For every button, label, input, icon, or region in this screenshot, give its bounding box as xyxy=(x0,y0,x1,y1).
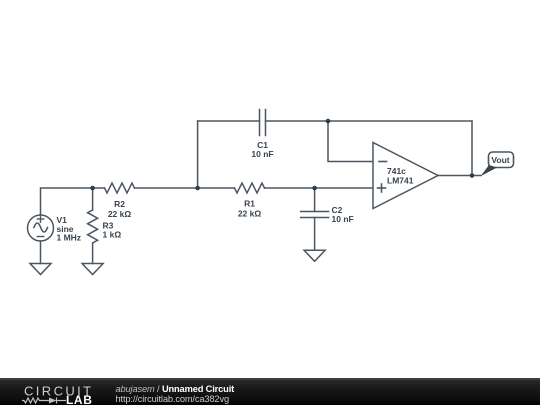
ground at R3 xyxy=(82,264,103,275)
junction node at C2 xyxy=(312,186,317,191)
svg-text:R2: R2 xyxy=(114,199,125,209)
label R3 1 kOhm xyxy=(103,220,122,239)
wire C2 top lead xyxy=(314,188,316,212)
wire R2 to node A xyxy=(135,187,235,189)
footer bar xyxy=(0,378,540,405)
wire inverting input branch xyxy=(328,121,373,162)
wire V1 bottom lead to ground xyxy=(40,241,42,264)
voltage source V1 xyxy=(28,215,54,241)
svg-text:R1: R1 xyxy=(244,199,255,209)
wire R3 top lead xyxy=(92,188,94,210)
resistor R1 xyxy=(235,183,265,193)
svg-text:Vout: Vout xyxy=(491,155,509,165)
junction node at output xyxy=(470,173,475,178)
wire R1 to op-amp non-inverting input xyxy=(265,187,374,189)
svg-text:LAB: LAB xyxy=(66,393,92,405)
op-amp U1 741c xyxy=(373,143,438,209)
footer text xyxy=(116,384,235,404)
wire node A up to feedback rail xyxy=(197,121,199,188)
wire right vertical feedback drop xyxy=(471,121,473,176)
svg-text:22 kΩ: 22 kΩ xyxy=(238,209,262,219)
capacitor C1 xyxy=(260,110,266,136)
wire R3 bottom lead to ground xyxy=(92,243,94,264)
svg-text:1 MHz: 1 MHz xyxy=(57,233,82,243)
wire feedback rail left of C1 xyxy=(198,120,260,122)
wire feedback rail right of C1 xyxy=(266,120,473,122)
wire V1 top lead to node B xyxy=(41,188,105,214)
label op-amp 741c LM741 xyxy=(387,166,414,186)
label R2 22 kOhm xyxy=(108,199,132,219)
ground at V1 xyxy=(30,264,51,275)
svg-text:1 kΩ: 1 kΩ xyxy=(103,230,122,240)
wire op-amp output xyxy=(438,175,481,177)
ground at C2 xyxy=(304,250,325,261)
wire C2 bottom lead to ground xyxy=(314,218,316,251)
svg-text:10 nF: 10 nF xyxy=(332,214,354,224)
label V1 sine 1 MHz xyxy=(57,215,82,243)
junction node B at R3 xyxy=(90,186,95,191)
label C1 10 nF xyxy=(251,140,273,159)
capacitor C2 xyxy=(301,212,329,218)
logo CircuitLab xyxy=(22,379,102,405)
resistor R2 xyxy=(105,183,135,193)
svg-text:741c: 741c xyxy=(387,166,406,176)
junction node on feedback rail xyxy=(326,119,331,124)
flag Vout pointer xyxy=(481,165,498,176)
svg-text:22 kΩ: 22 kΩ xyxy=(108,209,132,219)
resistor R3 xyxy=(88,210,98,243)
svg-text:LM741: LM741 xyxy=(387,176,414,186)
label C2 10 nF xyxy=(332,205,354,224)
flag Vout box xyxy=(489,152,514,168)
junction node A xyxy=(195,186,200,191)
svg-text:10 nF: 10 nF xyxy=(251,149,273,159)
label R1 22 kOhm xyxy=(238,199,262,219)
